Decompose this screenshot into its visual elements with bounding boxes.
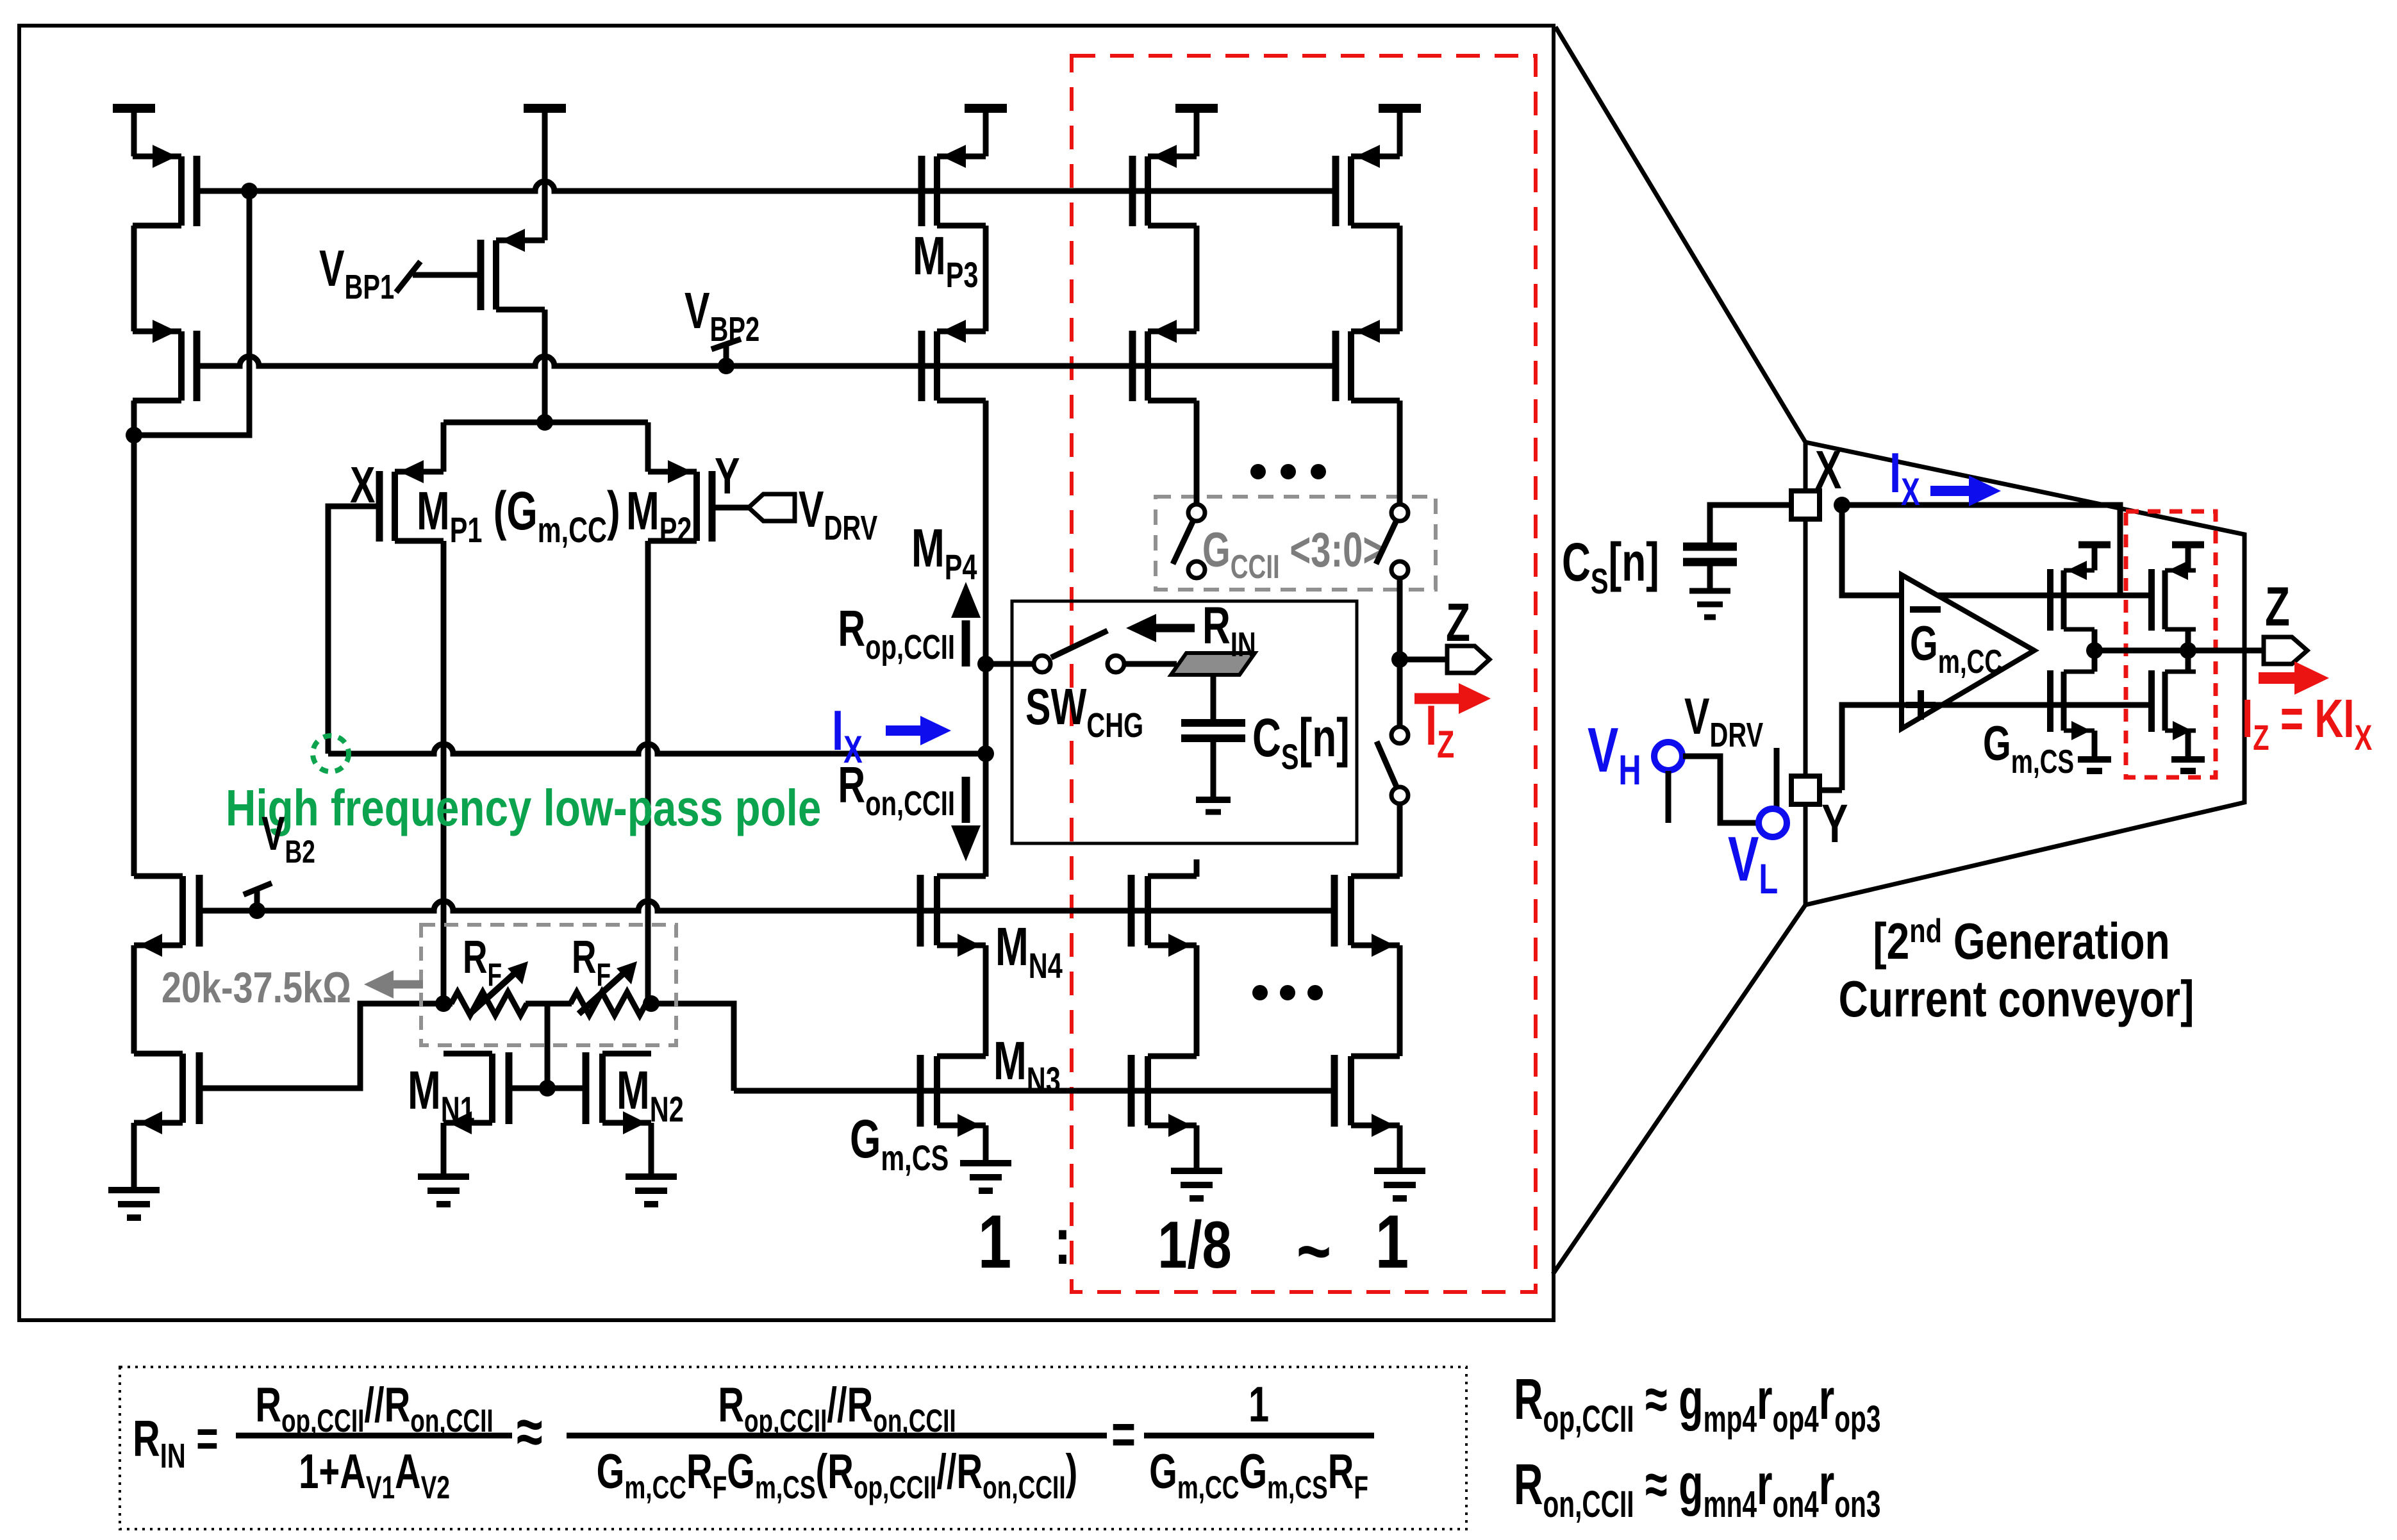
svg-text:Z: Z <box>1446 592 1470 652</box>
wire col A NMOS mid <box>1194 945 1200 1056</box>
transistor replica NMOS B top <box>1334 875 1400 957</box>
wire second pair drain top <box>2185 629 2191 672</box>
transistor K NMOS <box>2152 670 2196 740</box>
node X rail at CCII core <box>977 745 994 762</box>
svg-text:X: X <box>1815 440 1841 500</box>
switch GCCII B bottom <box>1391 561 1408 578</box>
wire MN3 gate rail <box>734 1088 1334 1094</box>
transistor left bias cascode bottom <box>134 1052 199 1134</box>
green dashed circle low-pass pole <box>313 736 349 772</box>
transistor output NMOS Gm,CS <box>2050 670 2094 740</box>
transistor PMOS VBP1 <box>481 229 545 310</box>
op-amp Gm,CC triangle <box>1902 575 2034 729</box>
wire left bias bottom gate to RF left node <box>199 1004 444 1088</box>
transistor output PMOS Gm,CS <box>2050 561 2094 631</box>
plus sign Gm,CC <box>1906 690 1936 720</box>
svg-text:1: 1 <box>1375 1199 1409 1284</box>
arrow Iz red <box>1414 693 1463 704</box>
box RF dashed <box>421 925 676 1045</box>
VDD bar MP3 column <box>965 104 1007 113</box>
switch SW_CHG right terminal <box>1107 656 1124 672</box>
arrow RF2 variable <box>579 972 626 1014</box>
ground replica A <box>1171 1168 1222 1174</box>
wire VBP1 drain down <box>542 310 548 422</box>
switch SW_CHG left terminal <box>1034 656 1050 672</box>
wire gate rail VBP top (rail1) <box>197 181 1336 191</box>
connector tick VB2 <box>244 883 272 911</box>
circle VH blue <box>1654 742 1682 770</box>
capacitor Cs[n] panel <box>1683 547 1737 562</box>
wire RF mid segment <box>444 1001 452 1007</box>
red dashed replica box <box>1072 56 1536 1292</box>
svg-text:~: ~ <box>1297 1210 1331 1293</box>
svg-text:CS[n]: CS[n] <box>1252 708 1350 777</box>
wire RF mid segment 2 <box>526 1001 572 1007</box>
VDD bar left <box>113 104 155 113</box>
transistor MN2 <box>586 1052 651 1134</box>
wire second pair NMOS source <box>2185 731 2191 758</box>
VDD tee second pair PMOS <box>2172 542 2204 549</box>
wire left bias source to ground <box>131 1123 137 1190</box>
wire MN1 source to ground <box>441 1123 447 1177</box>
magnifier connector top <box>1555 27 1805 442</box>
wire column A PMOS drain to switch <box>1194 401 1200 504</box>
transistor replica PMOS A bottom <box>1132 320 1197 401</box>
wire VDD stem left <box>131 113 137 156</box>
wire MP2 gate stub to Y <box>712 505 749 511</box>
magnifier trapezoid outline <box>1805 442 2244 905</box>
svg-text:1/8: 1/8 <box>1157 1207 1232 1282</box>
wire MN2 source to ground <box>649 1123 654 1177</box>
ground Cs <box>1196 797 1231 803</box>
VDD bar VBP1 branch <box>524 104 566 113</box>
transistor left bias cascode top (VB2) <box>134 875 199 957</box>
svg-text:=: = <box>1111 1403 1136 1466</box>
wire X node rail to Rop node <box>328 744 986 754</box>
transistor MN3 <box>920 1055 986 1137</box>
wire RIN to Cs <box>1211 675 1216 720</box>
svg-text:Y: Y <box>715 447 740 504</box>
wire Cs to ground <box>1211 738 1216 800</box>
wire NMOS gate rail MN4 (VB2 rail) <box>199 901 1334 911</box>
transistor PMOS bias top-left lower <box>133 320 197 401</box>
wire first pair PMOS source <box>2092 545 2098 570</box>
connector pentagon Z <box>1447 646 1489 673</box>
transistor MN4 <box>920 875 986 957</box>
arrow Iz panel red <box>2259 672 2298 684</box>
wire tail left down <box>441 422 447 472</box>
node RF right <box>643 995 659 1012</box>
node MN1/MN2 gate <box>539 1080 556 1097</box>
dotted equation box <box>120 1367 1466 1529</box>
arrow Ron down <box>962 777 970 823</box>
switch SW_CHG blade <box>1051 631 1107 658</box>
wire col B NMOS mid <box>1397 945 1403 1056</box>
wire VDD stem column B <box>1397 113 1403 156</box>
wire col A PMOS mid <box>1194 226 1200 331</box>
transistor replica NMOS A bottom <box>1131 1055 1197 1137</box>
wire Y to plus input <box>1842 705 2150 790</box>
wire tail rail <box>444 420 648 426</box>
ground tee first pair <box>2078 759 2111 771</box>
connector pentagon VDRV <box>749 494 795 521</box>
dots ellipsis top <box>1250 464 1266 479</box>
wire first pair NMOS source <box>2092 731 2098 758</box>
dots ellipsis bottom <box>1252 985 1268 1000</box>
wire left bias column down <box>131 435 137 876</box>
wire second pair PMOS source <box>2185 545 2191 570</box>
resistor RF1 zigzag <box>451 992 527 1015</box>
wire MP3-MP4 mid <box>983 226 989 331</box>
switch GCCII A bottom <box>1188 561 1205 578</box>
switch Z blade <box>1377 741 1397 788</box>
connector tick VBP1 <box>396 261 420 292</box>
wire VH step <box>1683 756 1758 823</box>
transistor MN1 <box>444 1052 509 1134</box>
wire left cascode mid <box>131 226 137 331</box>
wire switch to RIN slider <box>1125 661 1177 667</box>
svg-text:20k-37.5kΩ: 20k-37.5kΩ <box>162 964 351 1012</box>
wire col B PMOS mid <box>1397 226 1403 331</box>
wire switch B to Z node <box>1397 577 1403 727</box>
arrow Ix panel blue <box>1930 486 1973 496</box>
minus sign Gm,CC <box>1910 606 1941 613</box>
arrow 20k range gray <box>390 981 423 989</box>
magnifier connector bottom <box>1553 905 1805 1274</box>
transistor MP1 (Gm,CC) <box>379 460 444 542</box>
box SW_CHG <box>1012 601 1357 843</box>
wire VDD stem VBP1 <box>542 113 548 240</box>
VDD bar replica column B <box>1379 104 1421 113</box>
wire X to Cs <box>1710 505 1791 544</box>
ground Gm,CS core <box>960 1160 1011 1166</box>
port Y square <box>1791 776 1820 804</box>
transistor K PMOS <box>2152 561 2196 631</box>
node X panel <box>1834 497 1850 513</box>
wire X to minus input <box>1842 505 2150 595</box>
wire MN3 source to ground <box>983 1125 989 1163</box>
transistor replica PMOS A top <box>1132 145 1197 226</box>
svg-text:1: 1 <box>1248 1377 1269 1433</box>
switch GCCII A top <box>1188 504 1205 521</box>
wire column B PMOS drain to switch <box>1397 401 1403 504</box>
connector pentagon Z panel <box>2264 637 2307 664</box>
switch GCCII B blade <box>1376 520 1397 564</box>
wire VDRV stub <box>1774 748 1780 808</box>
transistor MP3 <box>922 145 986 226</box>
wire drain nodes link <box>2094 648 2188 654</box>
arrow Ix blue <box>886 725 925 736</box>
transistor replica NMOS B bottom <box>1334 1055 1400 1137</box>
wire tail right down <box>645 422 651 472</box>
red dashed K-scaling box <box>2126 511 2216 777</box>
wire MN4-MN3 mid <box>983 945 989 1056</box>
svg-text:≈: ≈ <box>517 1395 543 1468</box>
svg-text::: : <box>1054 1204 1072 1278</box>
switch GCCII A blade <box>1173 520 1193 564</box>
wire X gate lead <box>328 506 379 754</box>
wire VBP1 gate lead <box>413 272 481 278</box>
svg-text:CS[n]: CS[n] <box>1562 532 1659 602</box>
ground left bias <box>108 1187 160 1193</box>
switch Z bottom terminal <box>1391 787 1408 804</box>
ground Cs panel <box>1689 591 1730 617</box>
capacitor CS[n] sampling <box>1181 723 1245 738</box>
wire Y square to riser <box>1820 788 1842 793</box>
VDD bar replica column A <box>1175 104 1218 113</box>
switch GCCII B top <box>1391 504 1408 521</box>
node tail current junction <box>536 414 553 431</box>
wire diode vertical from rail1 <box>135 191 249 435</box>
arrow RIN left <box>1152 624 1195 633</box>
wire VDD stem MP3 <box>983 113 989 156</box>
svg-text:High frequency low-pass pole: High frequency low-pass pole <box>226 779 821 837</box>
wire first pair drain top <box>2092 629 2098 672</box>
wire VH leg <box>1666 771 1671 823</box>
ground MN1 <box>418 1173 469 1180</box>
equation frac1 bar <box>236 1433 512 1439</box>
transistor MP4 <box>922 320 986 401</box>
node diode drain junction <box>126 427 142 443</box>
svg-text:GCCII <3:0>: GCCII <3:0> <box>1202 523 1384 586</box>
svg-text:Z: Z <box>2265 577 2290 638</box>
wire RF right segment <box>645 1001 651 1007</box>
ground MN2 <box>626 1173 677 1180</box>
svg-text:Y: Y <box>1821 793 1848 854</box>
arrow Rop up <box>962 620 970 667</box>
equation frac3 bar <box>1144 1433 1374 1439</box>
box GCCII dashed <box>1156 497 1436 590</box>
VDD tee first pair PMOS <box>2078 542 2111 549</box>
transistor replica NMOS A top <box>1131 875 1197 957</box>
wire Z to pentagon <box>1400 657 1447 663</box>
wire MN1-MN2 gate link <box>509 1086 586 1091</box>
wire col B NMOS source <box>1397 1125 1403 1171</box>
wire RF right node to MN3 gate <box>651 1004 734 1091</box>
wire Rop node to switch <box>986 661 1033 667</box>
wire col A NMOS drain stub <box>1194 859 1200 877</box>
wire gate rail VBP2 (rail2) <box>197 356 1336 366</box>
wire MP2 drain down <box>645 541 651 1004</box>
circle VL blue <box>1759 809 1787 837</box>
transistor replica PMOS B top <box>1336 145 1400 226</box>
equation frac2 bar <box>567 1433 1107 1439</box>
wire switch Z to NMOS column B <box>1397 803 1403 877</box>
wire MP1 drain down <box>441 541 447 1004</box>
node RF left <box>435 995 452 1012</box>
transistor replica PMOS B bottom <box>1336 320 1400 401</box>
port X square <box>1791 491 1820 519</box>
node Rop/switch junction <box>977 656 994 672</box>
connector tick VBP2 <box>711 339 741 366</box>
resistor RIN slider parallelogram <box>1171 653 1255 675</box>
resistor RF2 zigzag <box>570 992 646 1015</box>
transistor MP2 <box>648 460 712 542</box>
wire X to gates top <box>1842 505 2120 595</box>
switch Z top terminal <box>1391 727 1408 743</box>
wire left cascode drain down <box>131 401 137 435</box>
transistor PMOS bias top-left upper <box>133 145 197 226</box>
wire RF center tap <box>545 1004 551 1088</box>
ground tee second pair <box>2171 759 2205 771</box>
wire left bias mid <box>131 945 137 1054</box>
svg-text:Current conveyor]: Current conveyor] <box>1839 970 2194 1027</box>
wire VDD stem column A <box>1194 113 1200 156</box>
wire MP4 drain to Rop node and MN4 <box>983 401 989 877</box>
outer schematic box <box>19 26 1554 1320</box>
node Z junction <box>1391 651 1408 668</box>
wire to Z port <box>2188 648 2264 654</box>
arrow RF1 variable <box>470 972 517 1014</box>
svg-text:1: 1 <box>978 1199 1011 1284</box>
ground replica B <box>1374 1168 1425 1174</box>
wire Cs to ground panel <box>1707 562 1713 590</box>
node first pair drain <box>2086 642 2103 659</box>
node second pair drain <box>2180 642 2196 659</box>
wire col A NMOS source <box>1194 1125 1200 1171</box>
